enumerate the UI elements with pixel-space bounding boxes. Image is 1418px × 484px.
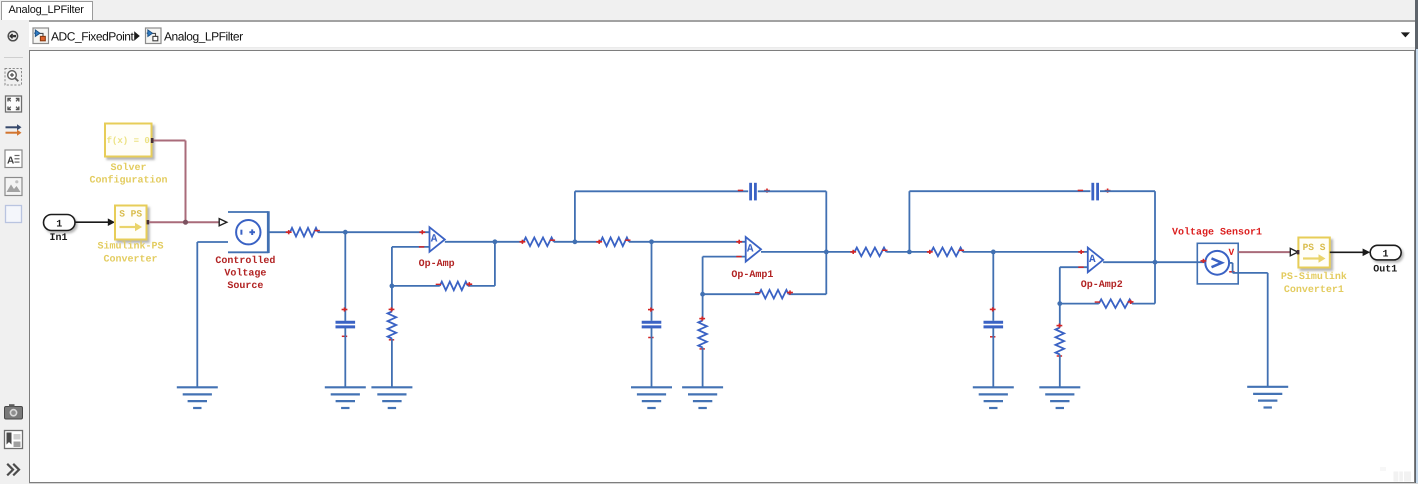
outport Out1 xyxy=(1370,245,1401,275)
port arrow into PS-Simulink Converter1 xyxy=(1290,248,1298,255)
svg-text:In1: In1 xyxy=(49,233,67,244)
ground G4 xyxy=(631,387,672,408)
ground G6 xyxy=(973,387,1014,408)
ground G5 xyxy=(682,387,723,408)
inport In1 xyxy=(44,215,76,245)
ground G3 xyxy=(371,387,412,408)
svg-text:Voltage: Voltage xyxy=(224,268,266,280)
ground G1 xyxy=(177,387,218,408)
wire feedback row to R2 xyxy=(468,285,495,287)
wire node F to op-amp U2 plus input xyxy=(652,240,746,244)
wire op-amp U3 output to node I xyxy=(1103,261,1155,263)
breadcrumb separator arrow xyxy=(134,31,140,40)
wire op-amp U1 output to node B xyxy=(445,241,495,243)
svg-text:Out1: Out1 xyxy=(1373,264,1397,275)
capacitor C2 xyxy=(738,183,770,201)
svg-text:S PS: S PS xyxy=(119,209,142,220)
wire physical signal Solver Configuration to node PS1 xyxy=(154,141,186,223)
wire PS-Simulink Converter1 to Out1 xyxy=(1330,249,1370,257)
breadcrumb bar xyxy=(29,22,1416,48)
node E junction xyxy=(824,250,829,255)
faint watermark badge xyxy=(1380,467,1411,482)
resistor R7 xyxy=(698,317,707,349)
svg-text:Source: Source xyxy=(227,281,263,292)
voltage source U0 Controlled Voltage Source xyxy=(228,211,268,253)
wire node D up to top rail stage 2 xyxy=(575,191,748,242)
bottom strip xyxy=(29,483,1418,484)
svg-text:Configuration: Configuration xyxy=(89,175,167,187)
resistor R10 xyxy=(1095,299,1134,308)
svg-text:A: A xyxy=(7,156,14,167)
wire node J down to C5 xyxy=(992,252,994,321)
svg-text:Converter1: Converter1 xyxy=(1284,285,1344,296)
node C junction xyxy=(390,284,395,289)
wire node C up to op-amp U1 minus input xyxy=(392,247,430,286)
wire node K up to op-amp U3 minus input xyxy=(1060,267,1088,303)
toolbar image icon xyxy=(5,178,22,196)
svg-text:Analog_LPFilter: Analog_LPFilter xyxy=(164,29,243,43)
resistor R1 xyxy=(286,228,320,237)
svg-text:Simulink-PS: Simulink-PS xyxy=(97,240,163,252)
block PS-Simulink Converter1 xyxy=(1281,238,1347,297)
wire physical signal Simulink-PS Converter to Controlled Voltage Source xyxy=(149,221,219,223)
wire R2 to node C xyxy=(392,285,440,287)
capacitor C4 xyxy=(1078,183,1111,201)
resistor R6 xyxy=(755,290,793,299)
toolbar model browser icon xyxy=(5,431,23,449)
wire node A to op-amp U1 plus input xyxy=(345,230,429,234)
wire In1 to Simulink-PS Converter xyxy=(75,218,115,226)
toolbar expand chevrons xyxy=(7,464,19,476)
capacitor C5 xyxy=(984,307,1004,337)
tab strip background xyxy=(0,0,1418,20)
svg-text:Solver: Solver xyxy=(110,162,146,174)
wire node H up to top rail stage 3 xyxy=(909,191,1090,252)
label Controlled Voltage Source xyxy=(215,255,275,292)
toolbar camera icon xyxy=(5,404,23,419)
svg-text:ADC_FixedPoint: ADC_FixedPoint xyxy=(51,29,135,43)
op-amp U1 xyxy=(430,227,445,252)
wire C5 to ground G6 xyxy=(992,328,994,388)
svg-text:1: 1 xyxy=(56,219,62,230)
svg-text:A: A xyxy=(431,234,438,246)
svg-text:Op-Amp: Op-Amp xyxy=(419,259,455,270)
node H junction xyxy=(907,250,912,255)
wire Controlled Voltage Source negative to ground G1 xyxy=(197,242,228,387)
wire R4 to node D xyxy=(554,241,575,243)
wire node G down to R7 xyxy=(702,294,704,320)
resistor R4 xyxy=(520,238,556,247)
toolbar separator xyxy=(4,57,23,59)
breadcrumb model icon Analog_LPFilter xyxy=(146,28,162,44)
wire R10 to node K xyxy=(1060,303,1099,305)
ground G8 xyxy=(1247,387,1288,408)
wire R6 to node G xyxy=(703,293,759,295)
wire C3 to ground G4 xyxy=(651,328,653,388)
wire C1 to ground G2 xyxy=(344,328,346,388)
toolbar update-diagram icon xyxy=(6,124,22,136)
wire feedback row to R10 xyxy=(1132,303,1155,305)
resistor R3 xyxy=(388,307,397,340)
toolbar subsystem icon xyxy=(6,206,22,223)
wire C2 to node E vertical xyxy=(758,191,827,252)
svg-text:PS S: PS S xyxy=(1303,242,1326,253)
svg-text:Voltage Sensor1: Voltage Sensor1 xyxy=(1172,227,1262,239)
wire feedback row to R6 xyxy=(789,293,827,295)
wire node E down to feedback row stage 2 xyxy=(825,252,827,294)
svg-text:Op-Amp2: Op-Amp2 xyxy=(1081,280,1123,291)
svg-text:Converter: Converter xyxy=(103,255,157,266)
op-amp U2 xyxy=(746,237,761,262)
resistor R9 xyxy=(927,248,964,257)
resistor R5 xyxy=(596,238,630,247)
wire node F down to C3 xyxy=(651,242,653,321)
node K junction xyxy=(1057,301,1062,306)
node I junction xyxy=(1153,260,1158,265)
wire node J to op-amp U3 plus input xyxy=(993,250,1088,254)
ground G7 xyxy=(1039,387,1080,408)
wire node B to R4 xyxy=(495,241,524,243)
capacitor C1 xyxy=(336,307,356,336)
wire node I to Voltage Sensor1 xyxy=(1155,261,1197,263)
node B junction xyxy=(493,239,498,244)
svg-text:Controlled: Controlled xyxy=(215,255,275,267)
wire Voltage Sensor1 negative to ground G8 xyxy=(1238,273,1268,387)
svg-text:A: A xyxy=(747,243,754,255)
port arrow into Controlled Voltage Source xyxy=(219,219,227,226)
wire node A down to C1 xyxy=(344,232,346,321)
svg-text:PS-Simulink: PS-Simulink xyxy=(1281,271,1347,283)
wire node E to R8 xyxy=(826,251,854,253)
node A junction xyxy=(343,230,348,235)
node G junction xyxy=(700,292,705,297)
wire node H to R9 xyxy=(909,251,931,253)
wire node C down to R3 xyxy=(391,286,393,312)
breadcrumb dropdown arrow xyxy=(1401,32,1410,37)
wire physical signal Voltage Sensor1 to PS-Simulink Converter1 xyxy=(1238,251,1290,253)
node PS1 junction xyxy=(183,220,188,225)
resistor R11 xyxy=(1056,324,1065,357)
wire R5 to node F xyxy=(629,241,652,243)
dark band below tabs xyxy=(29,20,1416,22)
svg-text:Op-Amp1: Op-Amp1 xyxy=(731,270,773,281)
right edge columns xyxy=(1415,0,1418,484)
active tab Analog_LPFilter xyxy=(1,1,93,20)
capacitor C3 xyxy=(642,308,662,338)
toolbar annotation icon xyxy=(5,150,22,168)
resistor R2 xyxy=(436,282,473,291)
wire node K down to R11 xyxy=(1059,304,1061,328)
voltage sensor Voltage Sensor1 xyxy=(1197,243,1238,284)
ground G2 xyxy=(325,387,366,408)
node J junction xyxy=(991,250,996,255)
wire C4 to node I vertical xyxy=(1100,191,1155,262)
wire R8 to node H xyxy=(886,251,909,253)
wire op-amp U2 output to node E xyxy=(761,251,826,253)
wire node D to R5 xyxy=(575,241,601,243)
wire node B down to feedback row stage 1 xyxy=(494,242,496,286)
wire R11 to ground G7 xyxy=(1059,355,1061,388)
wire node G up to op-amp U2 minus input xyxy=(703,257,746,295)
svg-text:A: A xyxy=(1089,254,1096,266)
op-amp U3 xyxy=(1088,248,1103,273)
left toolbar strip xyxy=(0,20,29,484)
wire R1 to node A xyxy=(318,231,345,233)
wire R3 to ground G3 xyxy=(391,339,393,388)
node D junction xyxy=(573,239,578,244)
wire node I down to feedback row stage 3 xyxy=(1154,262,1156,303)
node F junction xyxy=(649,239,654,244)
block Solver Configuration xyxy=(89,124,167,187)
resistor R8 xyxy=(850,248,887,257)
wire R9 to node J xyxy=(963,251,993,253)
toolbar back button xyxy=(8,31,17,40)
svg-text:1: 1 xyxy=(1382,249,1388,260)
svg-text:f(x) = 0: f(x) = 0 xyxy=(107,136,150,146)
toolbar zoom-select icon xyxy=(5,69,22,86)
breadcrumb model icon ADC_FixedPoint xyxy=(33,28,49,44)
wire Controlled Voltage Source output to R1 xyxy=(268,231,290,233)
wire R7 to ground G5 xyxy=(702,348,704,388)
block Simulink-PS Converter xyxy=(97,206,163,266)
toolbar fit-to-view icon xyxy=(6,96,22,112)
svg-text:V: V xyxy=(1229,247,1235,258)
